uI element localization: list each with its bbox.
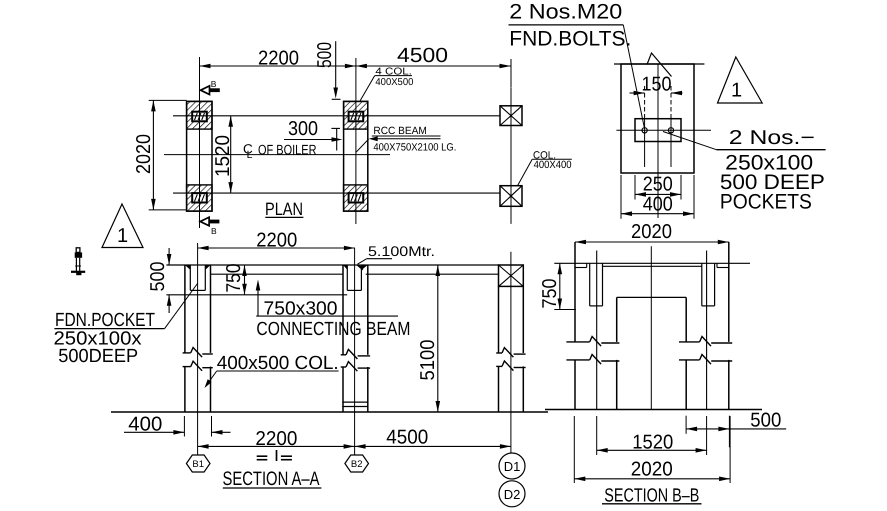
svg-text:5100: 5100 — [417, 340, 439, 381]
svg-text:500: 500 — [750, 410, 781, 432]
svg-text:5.100Mtr.: 5.100Mtr. — [368, 243, 435, 259]
svg-text:B: B — [211, 79, 217, 89]
svg-text:B2: B2 — [351, 459, 363, 470]
svg-text:250: 250 — [643, 174, 673, 196]
svg-text:150: 150 — [642, 74, 672, 96]
svg-text:POCKETS: POCKETS — [720, 191, 812, 214]
svg-text:B: B — [211, 226, 217, 236]
svg-text:FND.BOLTS.: FND.BOLTS. — [509, 28, 631, 51]
svg-text:PLAN: PLAN — [265, 199, 303, 219]
svg-text:300: 300 — [288, 118, 318, 140]
svg-text:500: 500 — [147, 262, 169, 292]
svg-text:2 Nos.−: 2 Nos.− — [729, 127, 815, 149]
svg-text:400X750X2100 LG.: 400X750X2100 LG. — [373, 141, 456, 153]
svg-text:2020: 2020 — [631, 221, 672, 243]
svg-text:750: 750 — [539, 279, 561, 309]
svg-text:2 Nos.M20: 2 Nos.M20 — [509, 1, 622, 24]
svg-text:400X400: 400X400 — [534, 159, 572, 171]
svg-text:4500: 4500 — [386, 427, 428, 449]
svg-text:1520: 1520 — [212, 135, 234, 177]
svg-text:RCC BEAM: RCC BEAM — [373, 125, 427, 137]
svg-text:2200: 2200 — [258, 48, 299, 70]
svg-text:D1: D1 — [504, 459, 521, 474]
svg-text:2020: 2020 — [133, 134, 155, 174]
svg-text:OF BOILER: OF BOILER — [258, 141, 317, 157]
svg-text:SECTION A–A: SECTION A–A — [223, 468, 320, 490]
svg-text:B1: B1 — [192, 459, 204, 470]
svg-text:4500: 4500 — [397, 44, 448, 67]
svg-text:2200: 2200 — [256, 230, 297, 252]
svg-text:500: 500 — [314, 42, 336, 68]
svg-text:500DEEP: 500DEEP — [58, 346, 138, 367]
svg-text:400: 400 — [643, 194, 673, 216]
svg-text:D2: D2 — [504, 487, 521, 502]
svg-text:L: L — [247, 149, 253, 161]
svg-text:750: 750 — [223, 264, 245, 293]
svg-text:1: 1 — [731, 80, 742, 102]
svg-text:2020: 2020 — [631, 459, 673, 481]
svg-text:1: 1 — [117, 225, 128, 247]
svg-text:400X500: 400X500 — [375, 77, 413, 88]
svg-text:2200: 2200 — [255, 428, 297, 450]
svg-text:CONNECTING BEAM: CONNECTING BEAM — [256, 319, 410, 340]
svg-text:1520: 1520 — [632, 432, 673, 454]
